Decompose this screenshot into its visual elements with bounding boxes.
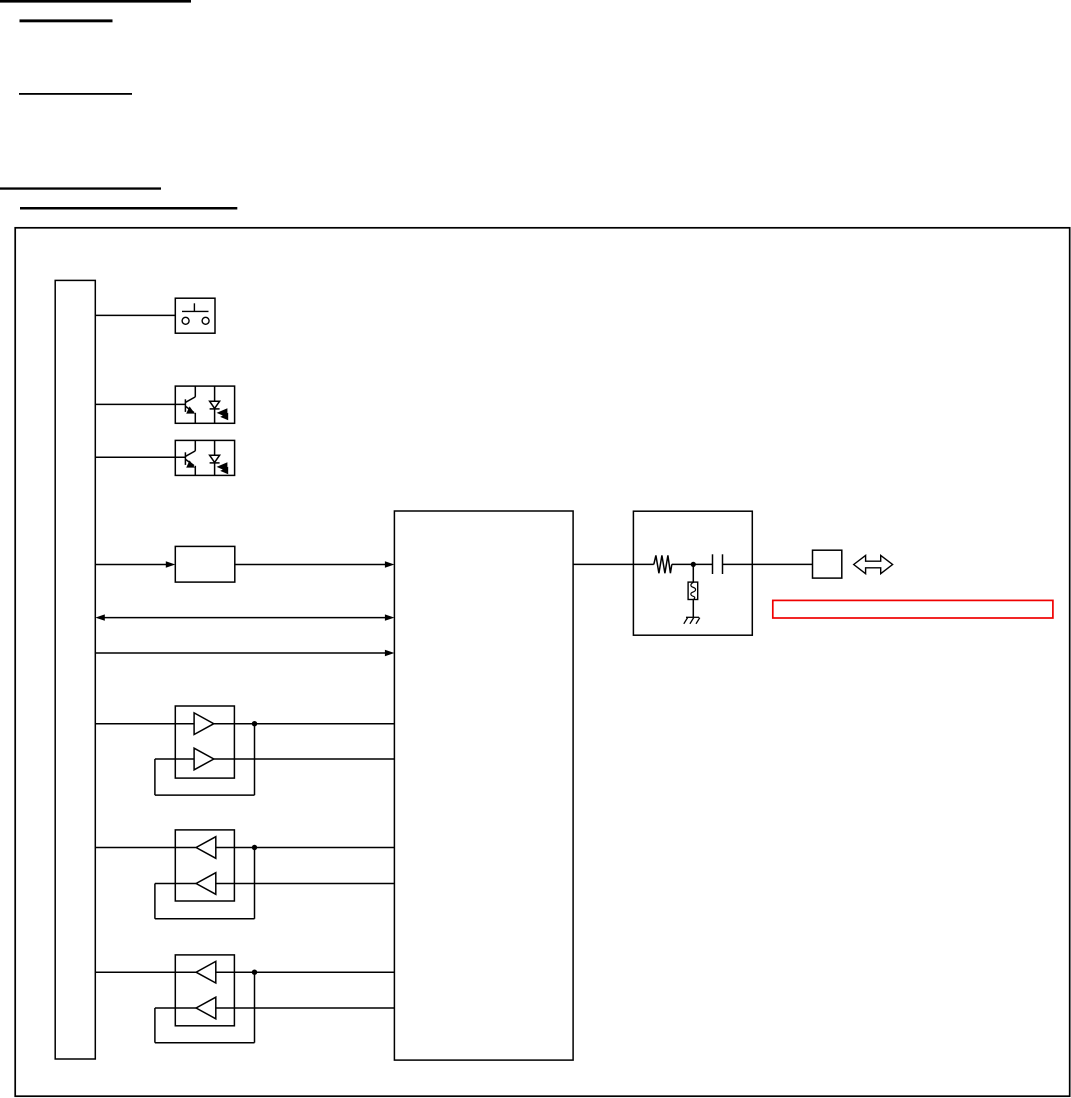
wire bus to receiver U3 — [95, 847, 195, 849]
wire to buffer U3b — [155, 883, 196, 885]
feedback wire bottom U3 — [155, 918, 255, 920]
wire resistor to capacitor — [672, 563, 713, 565]
DC-DC converter block — [175, 546, 235, 582]
feedback wire down — [254, 724, 256, 795]
annotation box (red) — [773, 600, 1053, 618]
wire into resistor — [633, 563, 653, 565]
receiver buffer U3a — [196, 837, 216, 859]
node dot U4 — [252, 970, 257, 975]
resistor R1 — [654, 555, 672, 573]
photocoupler PC1 — [175, 386, 234, 423]
feedback wire up — [154, 759, 156, 795]
wire DC-DC to controller with arrow — [235, 561, 395, 567]
driver buffer U2a — [194, 713, 214, 735]
wire to buffer U2b input — [155, 758, 194, 760]
chassis ground — [684, 617, 700, 624]
feedback wire bottom U4 — [155, 1042, 255, 1044]
driver block U2 — [175, 706, 234, 778]
feedback wire up U4 — [154, 1008, 156, 1043]
wire driver output to controller — [214, 723, 395, 725]
wire bus to receiver U4 — [95, 971, 196, 973]
feedback wire down U4 — [254, 972, 256, 1042]
external line double arrow — [854, 555, 893, 573]
surge arrester — [688, 582, 698, 599]
wire capacitor to box edge — [723, 563, 753, 565]
heading underline (title) — [0, 0, 191, 3]
wire arrester to ground — [692, 600, 694, 618]
capacitor C1 — [713, 554, 723, 574]
heading underline (section 2) — [0, 187, 161, 189]
node dot U3 — [252, 845, 257, 850]
wire node to arrester — [692, 564, 694, 582]
receiver block U4 — [175, 955, 234, 1026]
wire buffer U4b to controller — [216, 1007, 395, 1009]
internal bus connector (tall box) — [55, 280, 95, 1059]
photocoupler PC2 — [175, 440, 234, 475]
wire buffer U3b to controller — [216, 883, 395, 885]
receiver buffer U4b — [196, 997, 216, 1019]
receiver buffer U4a — [196, 961, 216, 983]
receiver buffer U3b — [196, 873, 216, 895]
wire controller to filter — [573, 563, 633, 565]
wire bus to switch — [95, 314, 175, 316]
feedback wire bottom — [155, 794, 255, 796]
node dot U2 — [252, 721, 257, 726]
driver buffer U2b — [194, 748, 214, 770]
wire bus to DC-DC converter with arrow — [95, 561, 175, 567]
bidirectional bus wire — [95, 614, 394, 620]
receiver block U3 — [175, 830, 234, 901]
terminal block TB — [813, 550, 842, 578]
wire bus to photocoupler PC2 — [95, 456, 185, 458]
wire buffer U2b to controller — [214, 758, 395, 760]
wire bus to driver U2 — [95, 723, 194, 725]
communication controller block U1 — [394, 511, 573, 1060]
diagram frame — [15, 228, 1070, 1096]
control wire with arrow — [95, 650, 394, 656]
wire receiver U4a to controller — [216, 971, 395, 973]
heading underline (figure caption) — [20, 207, 237, 210]
filter network box — [633, 511, 752, 635]
wire receiver U3a to controller — [216, 847, 395, 849]
heading underline (subsection) — [19, 93, 132, 95]
feedback wire up U3 — [154, 884, 156, 919]
feedback wire down U3 — [254, 848, 256, 919]
wire bus to photocoupler PC1 — [95, 403, 185, 405]
heading underline (section 1) — [20, 19, 113, 22]
switch SW1 — [175, 298, 215, 333]
wire filter to terminal — [752, 563, 812, 565]
node junction dot — [691, 562, 696, 567]
wire to buffer U4b — [155, 1007, 196, 1009]
